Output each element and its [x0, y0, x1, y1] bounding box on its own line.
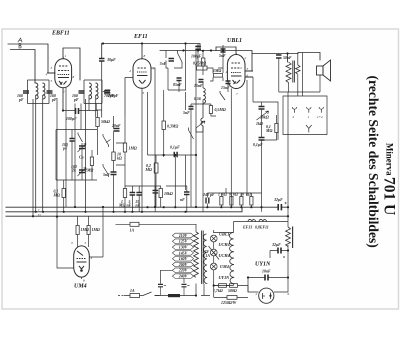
svg-text:4: 4 — [226, 70, 228, 74]
svg-text:7: 7 — [236, 92, 238, 96]
svg-text:5: 5 — [51, 79, 53, 83]
svg-text:5nF: 5nF — [183, 111, 190, 115]
wire UBL1 top feed — [216, 47, 236, 53]
svg-text:8: 8 — [144, 54, 146, 58]
wire left vert x63 tube bottom — [62, 88, 64, 111]
heater tube labels — [219, 232, 231, 281]
svg-text:3: 3 — [51, 66, 53, 70]
resistor 500Ω — [230, 284, 238, 288]
svg-text:1: 1 — [227, 58, 229, 62]
node A input line — [8, 44, 55, 73]
svg-text:6: 6 — [288, 292, 290, 296]
svg-text:5: 5 — [85, 241, 87, 245]
terminal 2 — [292, 107, 296, 109]
svg-text:1A: 1A — [130, 289, 135, 293]
bus line C — [6, 206, 289, 208]
capacitor 30µF — [99, 59, 105, 62]
svg-text:pF: pF — [73, 98, 79, 102]
fuse 1A bottom — [130, 294, 140, 298]
resistor 0,1MΩ tone — [275, 124, 278, 133]
output transformer T1 — [286, 61, 300, 83]
svg-text:85nF: 85nF — [173, 83, 182, 87]
svg-text:100µF: 100µF — [66, 117, 77, 121]
capacitor mains bypass right — [182, 284, 187, 286]
heater string coil — [229, 233, 234, 284]
svg-text:3: 3 — [143, 91, 145, 95]
capacitor 32µF lower — [278, 248, 281, 254]
variable capacitor Ca — [79, 146, 85, 149]
svg-text:UCH4: UCH4 — [219, 253, 230, 258]
dial lamps — [209, 230, 220, 274]
svg-text:0,15MΩ: 0,15MΩ — [193, 62, 206, 66]
svg-text:30kΩ: 30kΩ — [259, 116, 269, 120]
svg-text:EF13: EF13 — [242, 226, 252, 230]
capacitor 20nF — [114, 129, 120, 132]
wire verticals mid-left — [56, 98, 58, 217]
svg-text:5nF: 5nF — [219, 54, 226, 58]
svg-text:32µF: 32µF — [271, 243, 281, 247]
tube EF11 pin numbers — [129, 54, 155, 95]
svg-text:nF: nF — [136, 204, 141, 208]
resistor 10kΩ lower — [159, 189, 162, 198]
svg-text:1: 1 — [308, 115, 310, 119]
resistor 0,5MΩ — [209, 106, 212, 114]
resistor 2MΩ — [90, 157, 93, 166]
svg-text:pF: pF — [51, 98, 57, 102]
svg-text:125V: 125V — [179, 240, 188, 244]
wire x185 upper — [168, 44, 186, 111]
svg-text:500Ω: 500Ω — [228, 289, 237, 293]
potentiometer volume — [201, 104, 203, 126]
wire speaker down — [279, 75, 320, 92]
svg-text:pF: pF — [18, 98, 24, 102]
svg-text:10nF: 10nF — [262, 270, 271, 274]
svg-text:200V: 200V — [178, 263, 188, 267]
svg-text:8: 8 — [73, 75, 75, 79]
svg-text:0,3MΩ: 0,3MΩ — [167, 125, 178, 129]
resistor 0,2MΩ — [154, 163, 158, 173]
svg-text:0,1µF: 0,1µF — [170, 146, 180, 150]
svg-text:1250Ω/W: 1250Ω/W — [221, 301, 237, 305]
tuner box outline — [56, 130, 97, 181]
svg-text:100pF: 100pF — [191, 55, 202, 59]
capacitor 100pF — [70, 139, 75, 142]
wires filter top — [234, 92, 289, 227]
resistor 10kΩ — [112, 152, 115, 161]
svg-text:7nF: 7nF — [160, 62, 167, 66]
tone box outline — [253, 102, 278, 140]
field coil choke — [286, 227, 293, 249]
coil tails down — [35, 95, 37, 212]
svg-text:(rechte Seite des Schaltbildes: (rechte Seite des Schaltbildes) — [365, 76, 381, 248]
capacitor 5nF det — [189, 107, 194, 110]
wires dropper row — [207, 188, 261, 207]
svg-text:3: 3 — [71, 241, 73, 245]
svg-text:UM4: UM4 — [220, 264, 229, 269]
fuse 1A top — [130, 222, 139, 226]
svg-text:1kΩ: 1kΩ — [256, 122, 263, 126]
resistor 1MΩ eye right — [87, 226, 90, 235]
wire selector bottom to mains — [196, 284, 204, 296]
wire anode rail right — [160, 51, 252, 72]
svg-text:0,56: 0,56 — [194, 97, 201, 101]
svg-text:Ca: Ca — [79, 156, 84, 160]
svg-text:0,1A: 0,1A — [203, 254, 211, 258]
capacitor 15nF — [226, 81, 231, 84]
resistor 1MΩ lower — [123, 189, 126, 198]
resistor 0,3MΩ EF11 — [162, 121, 165, 130]
wire EF11 pin4 — [125, 78, 133, 117]
selector tap tags — [172, 233, 193, 278]
svg-text:50nF: 50nF — [283, 56, 292, 60]
wires transformer to speaker — [289, 53, 303, 97]
svg-text:780pF: 780pF — [108, 94, 119, 98]
resistor 1MΩ eye left — [76, 226, 79, 235]
switch S1 — [178, 51, 183, 65]
capacitor 240pF — [206, 198, 209, 204]
capacitor 100µF — [76, 108, 79, 114]
capacitor 0,1µF — [174, 152, 177, 157]
wires mid mesh 1 — [114, 116, 126, 212]
trimmer 30kΩ — [257, 111, 269, 120]
svg-text:4: 4 — [91, 256, 93, 260]
resistor 1MΩ horizontal — [214, 74, 223, 78]
capacitor 5nF mid — [111, 172, 117, 175]
resistor 1MΩ mid — [123, 143, 126, 152]
wire selector feed — [116, 224, 197, 232]
IF transformer IFT1 — [23, 80, 53, 217]
svg-text:7: 7 — [153, 67, 155, 71]
wires bottom resistors — [214, 286, 248, 298]
wire screen rail EF11 — [102, 44, 200, 51]
capacitor 780pF grid — [105, 90, 111, 93]
svg-text:EBF11: EBF11 — [51, 31, 70, 37]
wire 220V tap to switch — [161, 270, 185, 283]
wires tuner — [72, 130, 82, 181]
wires UM4 — [57, 207, 103, 279]
svg-text:0,8EF11: 0,8EF11 — [255, 226, 269, 230]
wires filter mid — [270, 245, 288, 277]
svg-text:UBL1: UBL1 — [227, 38, 242, 44]
svg-text:nF: nF — [180, 198, 185, 202]
IF transformer IFT2 — [79, 80, 111, 212]
svg-text:2: 2 — [293, 115, 295, 119]
tube UM4 magic eye — [74, 246, 90, 277]
heater winding — [203, 234, 207, 284]
choke L5 — [203, 88, 206, 103]
tube UBL1 — [227, 53, 253, 89]
pickup terminal box — [283, 96, 327, 135]
terminal 1 — [307, 107, 311, 109]
wire speaker top — [288, 53, 321, 61]
svg-text:220V: 220V — [178, 269, 188, 273]
tube EBF11 pin numbers — [46, 54, 75, 94]
capacitor 32µF upper — [278, 206, 281, 208]
wire 10nF drop — [101, 44, 103, 59]
capacitor 15nF UBL1 grid — [199, 80, 204, 83]
tube UBL1 pin numbers — [226, 56, 249, 96]
svg-text:1,7kΩ: 1,7kΩ — [213, 289, 223, 293]
tube EF11 — [133, 57, 151, 88]
svg-text:1MΩ: 1MΩ — [81, 228, 89, 232]
wires lower row — [125, 186, 187, 212]
mains line bottom — [118, 295, 124, 297]
svg-text:2: 2 — [256, 292, 258, 296]
capacitor lower e — [184, 192, 190, 195]
svg-text:3: 3 — [247, 67, 249, 71]
capacitor 100pF anode — [195, 46, 201, 49]
wires UBL1 cathode verticals — [231, 77, 253, 207]
wires mid mesh 2 — [142, 68, 196, 212]
svg-text:UY1N: UY1N — [219, 275, 231, 280]
capacitor 25nF lower — [136, 193, 142, 196]
wires tone — [262, 102, 277, 212]
svg-text:15nF: 15nF — [194, 84, 203, 88]
svg-text:20nF: 20nF — [111, 124, 121, 128]
coil windings — [36, 83, 39, 99]
switch S2 — [220, 91, 225, 100]
svg-text:nF: nF — [127, 204, 132, 208]
terminal 1+2 — [319, 107, 323, 109]
svg-text:32µF: 32µF — [273, 198, 283, 202]
capacitor 7nF — [169, 59, 175, 62]
row of dropper resistors — [220, 197, 253, 206]
wire 100uF net — [63, 110, 98, 112]
wire output top rail — [252, 54, 288, 63]
svg-text:kΩ: kΩ — [117, 157, 122, 161]
capacitor 5nF UBL1 — [221, 49, 226, 52]
svg-text:160V: 160V — [179, 257, 188, 261]
svg-text:MΩ: MΩ — [53, 194, 60, 198]
capacitor tone top — [259, 107, 265, 110]
speaker LS — [317, 60, 331, 81]
svg-text:2: 2 — [245, 56, 247, 60]
svg-text:MΩ: MΩ — [265, 129, 272, 133]
svg-text:2: 2 — [63, 90, 65, 94]
capacitor 5nF lower — [130, 193, 136, 196]
bus line E — [6, 215, 289, 217]
svg-text:1: 1 — [65, 54, 67, 58]
resistor 0,3MΩ top — [202, 58, 205, 66]
svg-text:pF: pF — [209, 193, 215, 197]
svg-text:10kΩ: 10kΩ — [164, 192, 173, 196]
switch wave — [78, 133, 83, 143]
svg-text:5nF: 5nF — [103, 173, 110, 177]
svg-text:130V: 130V — [179, 246, 188, 250]
wire main vertical x196 — [195, 51, 197, 208]
tube EBF11 — [47, 57, 72, 88]
wire cap down — [96, 62, 102, 118]
svg-text:240: 240 — [202, 193, 209, 197]
switch mains — [143, 292, 160, 296]
trimmer cap right — [47, 91, 53, 93]
capacitor 85nF — [177, 78, 182, 81]
svg-text:D: D — [37, 213, 41, 217]
svg-text:50kΩ: 50kΩ — [101, 120, 110, 124]
svg-text:15nF: 15nF — [221, 86, 230, 90]
resistor 1,7kΩ — [219, 284, 227, 288]
fuse body filled — [168, 294, 180, 297]
wire EF11 top cap — [141, 44, 143, 59]
trimmer cap left — [23, 91, 29, 93]
switch bandswitch upper — [103, 134, 111, 147]
svg-text:0,5MΩ: 0,5MΩ — [215, 108, 226, 112]
capacitor mains bypass left — [158, 284, 163, 286]
rotated title Minerva 701 U — [381, 143, 398, 215]
node B input line — [11, 50, 36, 84]
svg-text:UY1N: UY1N — [255, 262, 271, 268]
svg-text:240V: 240V — [178, 275, 188, 279]
capacitor 10nF — [265, 275, 268, 281]
svg-text:MΩ: MΩ — [118, 204, 125, 208]
svg-text:Minerva: Minerva — [385, 143, 395, 176]
capacitor tone bottom — [259, 138, 265, 141]
Y mark — [306, 125, 312, 133]
svg-text:110V: 110V — [179, 234, 188, 238]
svg-text:1+2: 1+2 — [317, 115, 323, 119]
resistor 50kΩ — [96, 118, 99, 127]
wire 7nF net — [166, 51, 182, 91]
svg-text:pF: pF — [62, 147, 68, 151]
resistor 0,1MΩ — [62, 189, 65, 198]
svg-text:8: 8 — [83, 279, 85, 283]
capacitor 50nF output — [276, 55, 282, 58]
trimmer lower — [79, 170, 85, 173]
svg-text:4: 4 — [129, 69, 131, 73]
svg-text:1A: 1A — [130, 229, 135, 233]
svg-text:EF11: EF11 — [133, 34, 148, 40]
svg-text:UCH4: UCH4 — [219, 242, 230, 247]
switch small right of EF11 — [189, 128, 194, 140]
resistor 0,15MΩ — [197, 66, 208, 70]
wires rectifier — [248, 278, 288, 293]
svg-text:701 U: 701 U — [381, 177, 398, 215]
svg-text:145V: 145V — [179, 251, 188, 255]
wire EBF11 top cap to rail — [63, 48, 80, 80]
resistor 1250Ω/W — [227, 296, 237, 300]
wires heater top/bottom — [214, 222, 234, 286]
wire UBL1 grid nets — [198, 45, 228, 92]
svg-text:4: 4 — [46, 73, 48, 77]
rectifier socket UY1N — [259, 288, 274, 303]
svg-text:1MΩ: 1MΩ — [213, 69, 221, 73]
switch bandswitch lower — [103, 164, 109, 177]
voltage selector winding — [194, 231, 204, 285]
capacitor 50pF lower — [153, 190, 159, 193]
svg-text:1MΩ: 1MΩ — [92, 228, 100, 232]
heater chokes row — [248, 219, 256, 221]
svg-text:30µF: 30µF — [106, 58, 116, 62]
svg-text:1MΩ: 1MΩ — [129, 147, 137, 151]
wires det net — [191, 83, 216, 212]
bus line D — [6, 207, 243, 212]
svg-text:MΩ: MΩ — [145, 168, 152, 172]
svg-text:UM4: UM4 — [74, 284, 87, 290]
